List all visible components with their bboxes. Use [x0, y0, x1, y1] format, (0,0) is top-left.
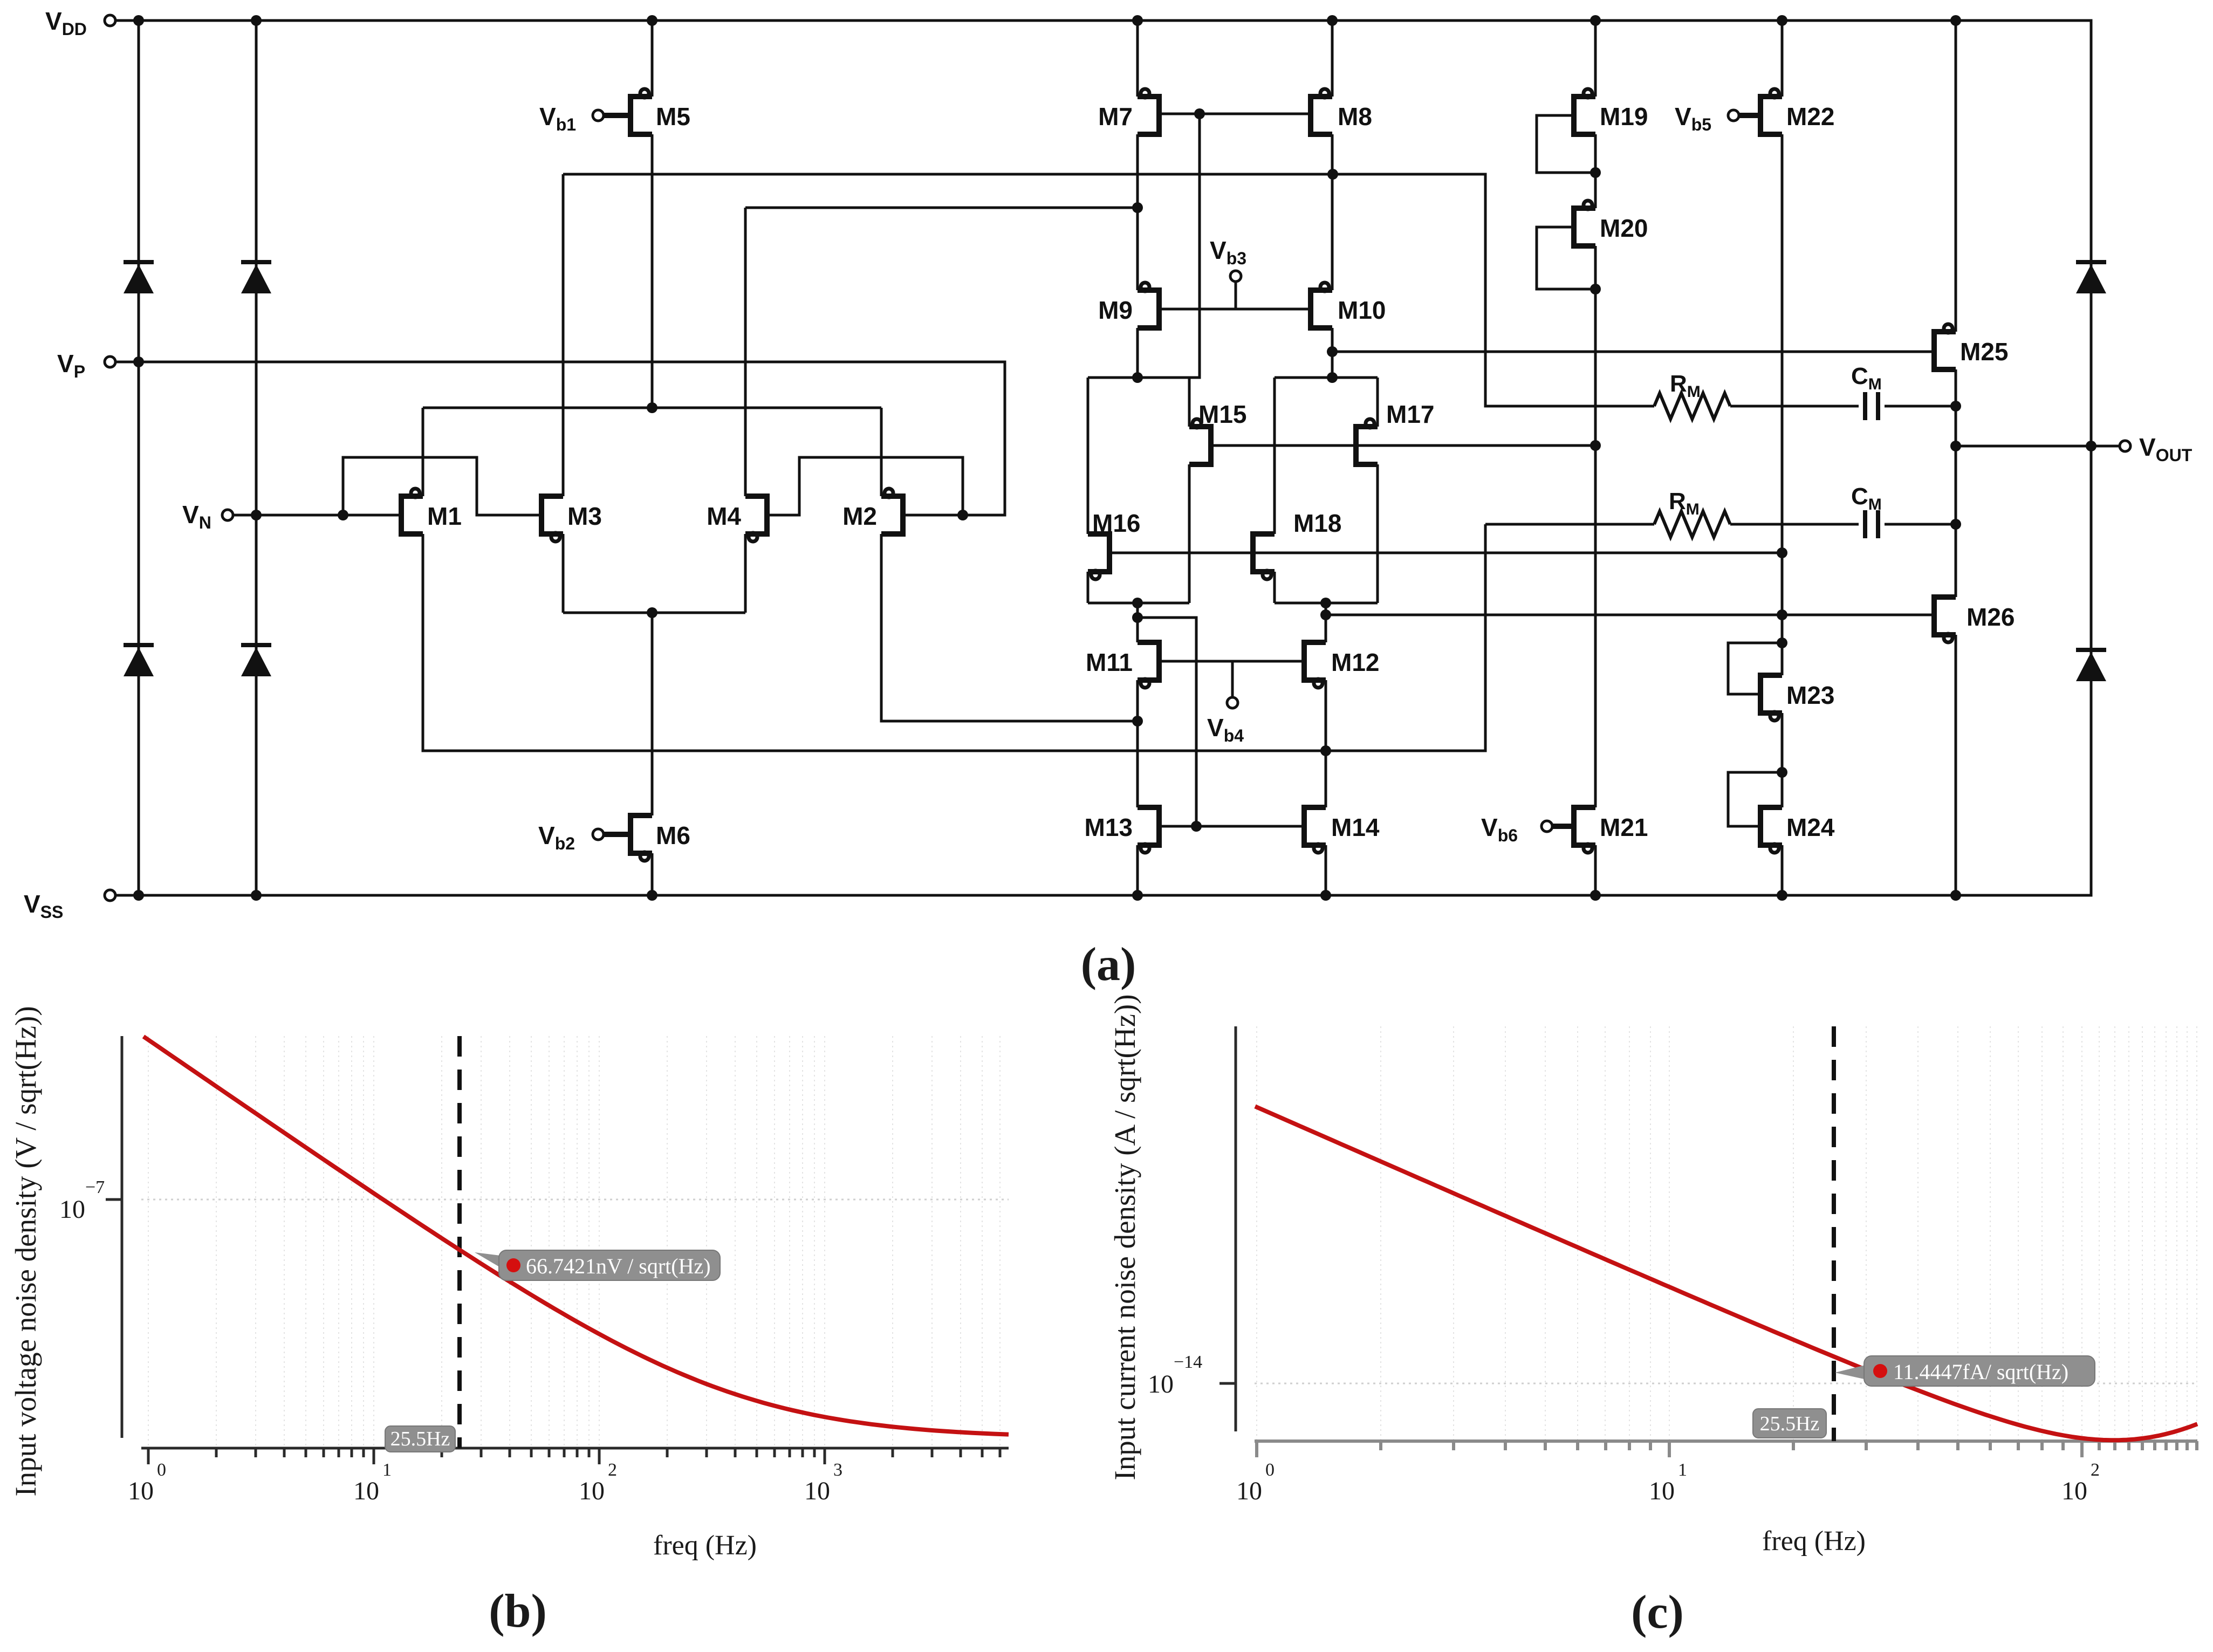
diode D1	[124, 262, 154, 293]
node M25-gate-tap	[1327, 346, 1338, 357]
node M11-drain-tap	[1132, 612, 1143, 623]
svg-text:10: 10	[353, 1477, 379, 1505]
wire M17 drain side	[1376, 378, 1379, 427]
svg-text:M8: M8	[1338, 102, 1372, 131]
svg-text:M24: M24	[1786, 813, 1835, 841]
svg-text:M15: M15	[1198, 400, 1246, 428]
node M7-VDD	[1132, 15, 1143, 26]
terminal VOUT	[2120, 441, 2130, 451]
wire M7-M8 gates down to M9 drain node	[1138, 114, 1200, 378]
dashed 25.5Hz marker line	[1832, 1026, 1836, 1441]
node comp-upper	[1950, 401, 1961, 412]
terminal VSS	[105, 890, 115, 901]
y axis	[106, 1036, 122, 1438]
wire M11-M12 gate row	[1159, 660, 1304, 663]
svg-text:M6: M6	[656, 821, 690, 849]
terminal Vb1	[593, 110, 604, 121]
node VOUT-diode	[2086, 441, 2096, 451]
node A-VSS	[133, 890, 144, 901]
terminal Vb6	[1541, 821, 1552, 832]
node VOUT-col	[1950, 441, 1961, 451]
transistor M7	[1138, 89, 1159, 134]
svg-text:M21: M21	[1600, 813, 1648, 841]
svg-text:M22: M22	[1786, 102, 1834, 131]
node M14-VSS	[1320, 890, 1331, 901]
wire M17 source side	[1376, 464, 1379, 603]
wire M17-M18 bottom row	[1275, 602, 1378, 605]
wire M25 drain from VDD	[1955, 20, 1957, 332]
node M8-VDD	[1327, 15, 1338, 26]
wire M8 drain	[1331, 20, 1334, 97]
svg-text:M18: M18	[1293, 509, 1341, 537]
wire M24 diode loop	[1728, 772, 1782, 826]
svg-text:(b): (b)	[489, 1585, 547, 1637]
transistor M2	[881, 489, 903, 534]
wire M20 diode loop	[1537, 227, 1595, 289]
node VP-split	[957, 510, 968, 520]
gridlines	[148, 1036, 1000, 1448]
svg-text:M26: M26	[1967, 603, 2015, 631]
svg-text:M16: M16	[1092, 509, 1140, 537]
node bias-tap-2	[1777, 547, 1787, 558]
transistor M19	[1574, 89, 1595, 134]
marker 66.7421nV	[475, 1252, 518, 1274]
terminal Vb5	[1728, 110, 1739, 121]
wire M19 drain	[1594, 20, 1597, 97]
wire M16 drain side	[1087, 378, 1090, 534]
wire M23 diode loop	[1728, 643, 1782, 694]
wire M16 source side	[1087, 572, 1090, 603]
VP net to M2 gate	[110, 362, 1005, 515]
wire M9 drain to cascode top	[1136, 328, 1139, 378]
VDD rail / right edge / VSS rail	[110, 20, 2091, 895]
diode D3	[124, 645, 154, 676]
wire M14 source	[1325, 845, 1327, 895]
wire M11-M13 mid	[1136, 680, 1139, 807]
svg-text:25.5Hz: 25.5Hz	[390, 1428, 450, 1450]
wire Vb4 stub	[1231, 661, 1234, 697]
wire M13-M14 gate row	[1159, 825, 1304, 828]
wire M10 drain node to M25 gate	[1332, 351, 1935, 353]
wire M8-M10 mid	[1331, 134, 1334, 290]
svg-text:M14: M14	[1331, 813, 1380, 841]
wire M15-M16 bottom row	[1088, 602, 1189, 605]
transistor M22	[1734, 89, 1782, 134]
transistor M20	[1574, 201, 1595, 246]
wire M18 drain side	[1273, 378, 1276, 534]
resistor RM (upper)	[1654, 393, 1730, 419]
node comp-lower	[1950, 519, 1961, 530]
wire M22 drain	[1781, 20, 1784, 97]
wire M21 source	[1594, 845, 1597, 895]
node M13M14-gate	[1191, 821, 1202, 832]
terminal Vb4	[1227, 697, 1238, 708]
svg-text:M12: M12	[1331, 648, 1379, 676]
svg-text:M3: M3	[567, 502, 602, 530]
svg-text:10: 10	[128, 1477, 154, 1505]
transistor M25	[1934, 324, 1956, 369]
svg-text:1: 1	[382, 1460, 392, 1480]
wire CM upper to M25 column	[1885, 405, 1956, 408]
wire M1-M2 common source	[423, 407, 881, 409]
terminal VN	[222, 510, 233, 520]
svg-text:M19: M19	[1600, 102, 1648, 131]
svg-text:−7: −7	[85, 1177, 105, 1197]
node M5-VDD	[647, 15, 657, 26]
wire M1 source	[422, 408, 424, 496]
svg-text:Input voltage noise density (V: Input voltage noise density (V / sqrt(Hz…	[9, 1006, 42, 1496]
node M6-VSS	[647, 890, 657, 901]
svg-text:10: 10	[1649, 1477, 1675, 1505]
wire M5 source to tail node	[651, 134, 654, 408]
wire M6 drain from tail node N	[651, 613, 654, 815]
transistor M16	[1088, 534, 1109, 579]
wire M10 drain to cascode top	[1331, 328, 1334, 378]
marker 25.5Hz	[1753, 1409, 1826, 1438]
red noise curve	[1255, 1106, 2197, 1440]
svg-text:10: 10	[804, 1477, 830, 1505]
wire node to RM lower	[1485, 523, 1654, 526]
node M20-loop	[1590, 284, 1601, 294]
node M13-VSS	[1132, 890, 1143, 901]
svg-text:M13: M13	[1085, 813, 1133, 841]
svg-text:M25: M25	[1960, 338, 2008, 366]
wire M4 drain row to node A column	[745, 207, 1138, 209]
wire M23-M24 mid	[1781, 713, 1784, 807]
wire M17-M18 top row	[1275, 376, 1378, 379]
svg-text:M9: M9	[1098, 296, 1133, 324]
node out2-tap	[1320, 609, 1331, 620]
svg-text:1: 1	[1678, 1460, 1687, 1480]
wire Vb3 stub	[1235, 282, 1237, 309]
svg-text:2: 2	[2091, 1460, 2100, 1480]
node M7M8-gate	[1194, 108, 1205, 119]
node B-VDD	[251, 15, 262, 26]
diode D4	[241, 645, 271, 676]
transistor M8	[1311, 89, 1332, 134]
node M22-VDD	[1777, 15, 1787, 26]
wire gate bus M15-M17 to M19/M20 node	[1211, 444, 1595, 447]
wire M7-M9 mid	[1136, 134, 1139, 290]
node M23-loop	[1777, 638, 1787, 648]
node M26-VSS	[1950, 890, 1961, 901]
marker 25.5Hz	[385, 1426, 455, 1452]
wire VOUT	[1956, 445, 2120, 448]
wire M22 source to M23	[1781, 134, 1784, 675]
node cascode-bot-R	[1320, 598, 1331, 608]
svg-text:(c): (c)	[1631, 1586, 1684, 1639]
marker 11.4447fA	[1835, 1363, 1872, 1381]
wire M7 drain	[1136, 20, 1139, 97]
wire M6 source to VSS	[651, 853, 654, 895]
wire gate bus M16-M18 to M22 drain	[1109, 552, 1782, 554]
wire M15-M16 top row	[1088, 376, 1189, 379]
wire to M26 gate	[1326, 614, 1935, 616]
wire node to M13-M14 gates	[1138, 603, 1196, 826]
transistor M10	[1311, 283, 1332, 328]
wire M7-M8 gate row	[1159, 113, 1311, 115]
terminal Vb3	[1230, 271, 1241, 282]
svg-text:M5: M5	[656, 102, 690, 131]
x axis	[141, 1448, 1009, 1464]
svg-text:10: 10	[1148, 1370, 1174, 1399]
transistor M21	[1547, 807, 1595, 853]
wire M18 source side	[1273, 572, 1276, 603]
wire M24 source	[1781, 845, 1784, 895]
wire M26 source to VSS	[1955, 635, 1957, 895]
node A-VDD	[133, 15, 144, 26]
terminal VP	[105, 357, 115, 367]
node M21-VSS	[1590, 890, 1601, 901]
node M25-VDD	[1950, 15, 1961, 26]
node B-VN	[251, 510, 262, 520]
transistor M12	[1304, 642, 1326, 688]
red noise curve	[143, 1037, 1009, 1435]
node cascode-bot-L	[1132, 598, 1143, 608]
transistor M4	[745, 496, 767, 541]
transistor M14	[1304, 807, 1326, 853]
wire M12 drain	[1325, 603, 1327, 642]
wire M5 drain	[651, 20, 654, 97]
capacitor CM (lower)	[1865, 510, 1878, 538]
resistor RM (lower)	[1654, 511, 1730, 537]
diode D5	[2076, 262, 2106, 293]
svg-text:66.7421nV / sqrt(Hz): 66.7421nV / sqrt(Hz)	[526, 1254, 711, 1278]
node M8-M10 node B	[1327, 169, 1338, 180]
svg-text:10: 10	[579, 1477, 605, 1505]
node tail-N	[647, 607, 657, 618]
terminal Vb2	[593, 829, 604, 840]
wire M15 drain side	[1188, 378, 1191, 427]
transistor M17	[1356, 419, 1378, 464]
node B-VSS	[251, 890, 262, 901]
transistor M11	[1138, 642, 1159, 688]
wire M25-M26 mid (VOUT column)	[1955, 369, 1957, 597]
svg-text:25.5Hz: 25.5Hz	[1760, 1413, 1820, 1435]
wire CM lower to M25 column	[1885, 523, 1956, 526]
svg-text:M2: M2	[842, 502, 877, 530]
gridlines	[1257, 1026, 2197, 1441]
svg-text:M7: M7	[1098, 102, 1133, 131]
svg-text:10: 10	[1236, 1477, 1262, 1505]
transistor M13	[1138, 807, 1159, 853]
wire M4 source	[744, 534, 747, 613]
wire diode column B	[255, 20, 258, 895]
wire M12-M14 mid	[1325, 680, 1327, 807]
wire VP loop over M2 to M4 gate	[767, 457, 963, 515]
wire M19-M20 mid	[1594, 134, 1597, 208]
capacitor CM (upper)	[1865, 392, 1878, 420]
diode D6	[2076, 650, 2106, 681]
svg-text:0: 0	[1265, 1460, 1275, 1480]
wire M3-M4 common source	[563, 612, 745, 614]
wire M13 source	[1136, 845, 1139, 895]
transistor M26	[1934, 597, 1956, 642]
node cascode-top-L	[1132, 372, 1143, 383]
transistor M1	[401, 489, 423, 534]
node VN-split	[338, 510, 348, 520]
svg-text:0: 0	[157, 1460, 166, 1480]
node M7-M9 node A	[1132, 202, 1143, 213]
wire M2 drain to M11 node	[881, 534, 1138, 721]
node M19-VDD	[1590, 15, 1601, 26]
chart (c): input current noise density	[1108, 994, 2197, 1639]
svg-text:2: 2	[608, 1460, 617, 1480]
wire short tap	[1325, 603, 1327, 615]
wire M3 drain row to node B riser to RM upper row	[563, 174, 1654, 406]
wire M20 to M21	[1594, 246, 1597, 807]
wire M3 source	[562, 534, 565, 613]
wire M1 drain to M12 node / RM lower row riser	[423, 524, 1485, 751]
svg-text:freq (Hz): freq (Hz)	[1762, 1526, 1866, 1557]
svg-text:M17: M17	[1386, 400, 1434, 428]
dashed 25.5Hz marker line	[457, 1036, 462, 1448]
wire diode column A	[138, 20, 140, 895]
node cascode-top-R	[1327, 372, 1338, 383]
diode D2	[241, 262, 271, 293]
wire RM lower to CM lower	[1730, 523, 1859, 526]
svg-text:M11: M11	[1086, 648, 1133, 676]
wire RM upper to CM upper	[1730, 405, 1859, 408]
node M24-VSS	[1777, 890, 1787, 901]
wire M4 drain up	[744, 208, 747, 496]
y axis	[1219, 1026, 1236, 1431]
wire M3 drain up	[562, 174, 565, 496]
node tail-P	[647, 402, 657, 413]
node M22-M23 node	[1777, 609, 1787, 620]
svg-text:Input current noise density (A: Input current noise density (A / sqrt(Hz…	[1108, 994, 1141, 1480]
svg-text:11.4447fA/ sqrt(Hz): 11.4447fA/ sqrt(Hz)	[1893, 1360, 2068, 1384]
wire VN loop over M1 to M3 gate	[343, 457, 542, 515]
svg-text:10: 10	[2061, 1477, 2087, 1505]
chart (b): input voltage noise density	[9, 1006, 1009, 1637]
x axis	[1255, 1441, 2197, 1457]
transistor M5	[604, 89, 652, 134]
transistor M24	[1760, 807, 1782, 853]
transistor M6	[604, 815, 652, 861]
wire M19 diode loop	[1537, 115, 1595, 173]
node bias-tap-1	[1590, 440, 1601, 451]
svg-text:M20: M20	[1600, 214, 1648, 242]
wire M2 source	[880, 408, 883, 496]
svg-text:M4: M4	[707, 502, 741, 530]
svg-text:−14: −14	[1174, 1352, 1202, 1372]
terminal VDD	[105, 15, 115, 26]
svg-text:M1: M1	[427, 502, 462, 530]
node M1d-M12	[1320, 745, 1331, 756]
transistor M9	[1138, 283, 1159, 328]
node M19-loop	[1590, 167, 1601, 178]
transistor M15	[1189, 419, 1211, 464]
svg-text:3: 3	[833, 1460, 842, 1480]
transistor M23	[1760, 675, 1782, 721]
svg-text:M23: M23	[1786, 681, 1834, 709]
node A-VP	[133, 357, 144, 367]
wire M11 drain	[1136, 618, 1139, 642]
svg-text:M10: M10	[1338, 296, 1386, 324]
svg-text:10: 10	[59, 1195, 85, 1224]
node M2d-M11	[1132, 716, 1143, 726]
VN net to M1 gate	[228, 514, 401, 517]
transistor M18	[1253, 534, 1275, 579]
transistor M3	[542, 496, 563, 541]
wire M15 source side	[1188, 464, 1191, 603]
svg-text:freq (Hz): freq (Hz)	[653, 1530, 757, 1561]
node M24-loop	[1777, 767, 1787, 778]
svg-text:(a): (a)	[1081, 938, 1136, 991]
wire Vb3 row M9-M10 gates	[1159, 308, 1311, 311]
